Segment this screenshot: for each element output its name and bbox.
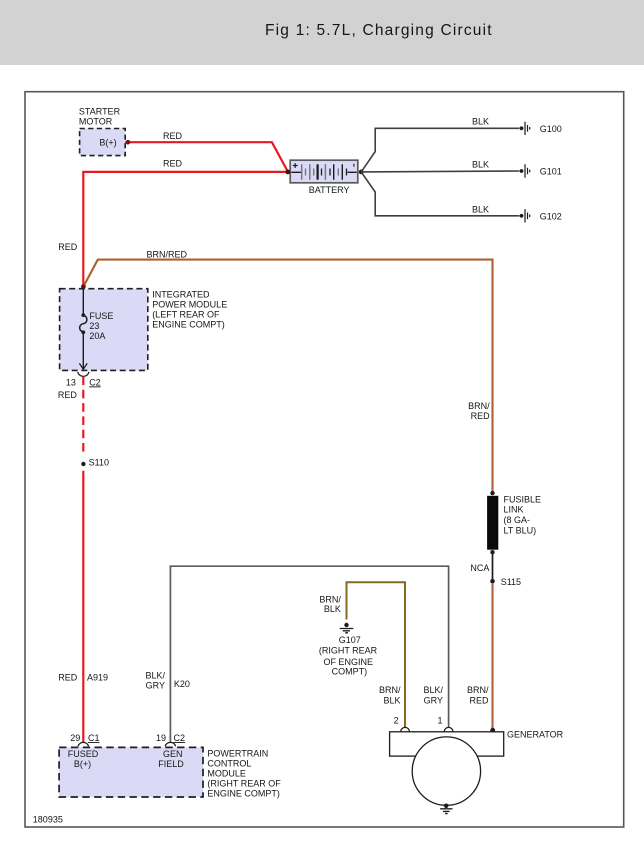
connector arc pin 2 xyxy=(401,727,410,731)
svg-text:29: 29 xyxy=(70,733,80,743)
svg-text:CONTROL: CONTROL xyxy=(207,758,251,768)
svg-text:K20: K20 xyxy=(174,679,190,689)
svg-text:G107: G107 xyxy=(339,635,361,645)
wire BRN/RED S115 to generator xyxy=(491,583,493,731)
svg-text:BRN/: BRN/ xyxy=(379,685,401,695)
svg-text:NCA: NCA xyxy=(470,563,489,573)
svg-text:BRN/: BRN/ xyxy=(468,401,490,411)
svg-text:S110: S110 xyxy=(89,457,109,467)
PCM pin name GEN FIELD xyxy=(158,749,184,769)
splice S110 xyxy=(81,462,85,466)
svg-text:C2: C2 xyxy=(174,733,186,743)
generator xyxy=(390,732,504,806)
node BRN/RED at generator xyxy=(490,728,495,733)
svg-text:1: 1 xyxy=(437,715,442,725)
starter motor label xyxy=(79,107,121,127)
svg-text:FIELD: FIELD xyxy=(158,759,184,769)
svg-text:19: 19 xyxy=(156,733,166,743)
svg-text:13: 13 xyxy=(66,377,76,387)
svg-text:RED: RED xyxy=(163,158,183,168)
wire BRN/RED top run xyxy=(83,260,492,493)
svg-text:B(+): B(+) xyxy=(74,759,91,769)
integrated power module box xyxy=(60,289,148,371)
svg-text:MODULE: MODULE xyxy=(207,768,246,778)
svg-text:G102: G102 xyxy=(540,211,562,221)
connector C2 at IPM (cup) xyxy=(78,372,89,376)
svg-text:FUSIBLE: FUSIBLE xyxy=(504,494,542,504)
svg-text:RED: RED xyxy=(471,411,491,421)
PCM module label xyxy=(207,748,281,798)
svg-text:ENGINE COMPT): ENGINE COMPT) xyxy=(152,319,225,329)
svg-text:OF ENGINE: OF ENGINE xyxy=(323,657,373,667)
svg-text:STARTER: STARTER xyxy=(79,107,121,117)
wire BLK to G100 xyxy=(361,128,519,172)
svg-text:LT BLU): LT BLU) xyxy=(504,526,537,536)
svg-text:FUSE: FUSE xyxy=(89,311,113,321)
fusible link label xyxy=(504,494,542,535)
label BRN/ RED (into generator) xyxy=(467,685,489,705)
svg-text:RED: RED xyxy=(58,242,78,252)
PCM pin name FUSED B(+) xyxy=(68,749,99,769)
wire BLK/GRY PCM to generator pin 1 xyxy=(170,566,448,742)
svg-text:GRY: GRY xyxy=(424,695,443,705)
svg-text:BLK: BLK xyxy=(472,160,489,170)
svg-text:BLK/: BLK/ xyxy=(423,685,443,695)
svg-text:20A: 20A xyxy=(89,331,105,341)
svg-text:POWER MODULE: POWER MODULE xyxy=(152,299,227,309)
node junction red/brown at IPM xyxy=(81,284,86,289)
svg-text:GENERATOR: GENERATOR xyxy=(507,730,564,740)
starter motor box xyxy=(80,129,126,156)
svg-text:LINK: LINK xyxy=(504,505,524,515)
svg-text:POWERTRAIN: POWERTRAIN xyxy=(207,748,268,758)
svg-text:ENGINE COMPT): ENGINE COMPT) xyxy=(207,788,280,798)
svg-text:RED: RED xyxy=(58,673,78,683)
ground G102 xyxy=(520,209,530,222)
svg-text:BRN/: BRN/ xyxy=(467,685,489,695)
wire RED S110 to PCM xyxy=(82,471,84,743)
connector arc C1 at PCM xyxy=(78,742,88,746)
node at starter B(+) xyxy=(126,140,131,145)
svg-text:2: 2 xyxy=(394,715,399,725)
wire BLK to G101 xyxy=(361,170,519,173)
wire RED dashed to S110 xyxy=(82,377,84,455)
battery xyxy=(290,160,358,183)
label BLK/ GRY (pin 1) xyxy=(423,685,443,705)
splice S115 xyxy=(490,579,495,584)
svg-text:BLK/: BLK/ xyxy=(145,671,165,681)
label BLK/ GRY (K20) xyxy=(145,671,165,691)
svg-text:C2: C2 xyxy=(89,377,101,387)
svg-text:(8 GA-: (8 GA- xyxy=(504,515,531,525)
fuse 23 20A xyxy=(79,287,113,369)
svg-text:GEN: GEN xyxy=(163,749,183,759)
svg-text:BRN/RED: BRN/RED xyxy=(147,250,188,260)
svg-text:FUSED: FUSED xyxy=(68,749,99,759)
svg-text:MOTOR: MOTOR xyxy=(79,116,113,126)
wire RED starter to battery xyxy=(125,142,288,171)
header band xyxy=(0,0,644,65)
wire BRN/BLK generator pin 2 to G107 xyxy=(347,582,406,728)
connector arc pin 1 xyxy=(444,727,453,731)
svg-text:BLK: BLK xyxy=(472,204,489,214)
svg-text:23: 23 xyxy=(89,321,99,331)
label BRN/ BLK (pin 2) xyxy=(379,685,401,705)
svg-text:RED: RED xyxy=(163,131,183,141)
svg-text:C1: C1 xyxy=(88,733,100,743)
svg-text:(LEFT REAR OF: (LEFT REAR OF xyxy=(152,309,220,319)
fusible link xyxy=(487,491,498,555)
label BRN/ RED (right vertical) xyxy=(468,401,490,421)
svg-text:(RIGHT REAR: (RIGHT REAR xyxy=(319,646,378,656)
ground G107 xyxy=(340,623,354,633)
ground G101 xyxy=(520,164,530,177)
svg-text:BLK: BLK xyxy=(383,695,400,705)
ground G100 xyxy=(520,122,530,135)
IPM module label xyxy=(152,289,227,329)
svg-text:RED: RED xyxy=(58,390,78,400)
node battery negative terminal xyxy=(359,170,364,175)
svg-text:COMPT): COMPT) xyxy=(332,667,368,677)
svg-text:S115: S115 xyxy=(501,577,521,587)
ground G107 label xyxy=(319,635,378,676)
svg-text:BLK: BLK xyxy=(472,117,489,127)
svg-text:BATTERY: BATTERY xyxy=(309,185,350,195)
svg-text:(RIGHT REAR OF: (RIGHT REAR OF xyxy=(207,778,281,788)
svg-text:BRN/: BRN/ xyxy=(319,594,341,604)
svg-text:G100: G100 xyxy=(540,124,562,134)
wire BLK to G102 xyxy=(361,172,519,216)
svg-text:RED: RED xyxy=(469,695,489,705)
svg-text:A919: A919 xyxy=(87,673,108,683)
wire NCA xyxy=(492,552,494,581)
svg-text:INTEGRATED: INTEGRATED xyxy=(152,289,210,299)
svg-text:180935: 180935 xyxy=(33,814,63,824)
generator case ground xyxy=(440,804,452,814)
connector arc C2 at PCM xyxy=(165,742,175,746)
powertrain control module box xyxy=(59,747,203,797)
svg-text:B(+): B(+) xyxy=(99,137,116,147)
node battery positive terminal xyxy=(285,170,290,175)
svg-text:BLK: BLK xyxy=(324,604,341,614)
svg-text:GRY: GRY xyxy=(146,681,165,691)
label BRN/ BLK (at G107) xyxy=(319,594,341,614)
wire RED battery to left drop xyxy=(83,172,287,287)
svg-text:Fig 1: 5.7L, Charging Circuit: Fig 1: 5.7L, Charging Circuit xyxy=(265,22,493,39)
svg-text:G101: G101 xyxy=(540,167,562,177)
